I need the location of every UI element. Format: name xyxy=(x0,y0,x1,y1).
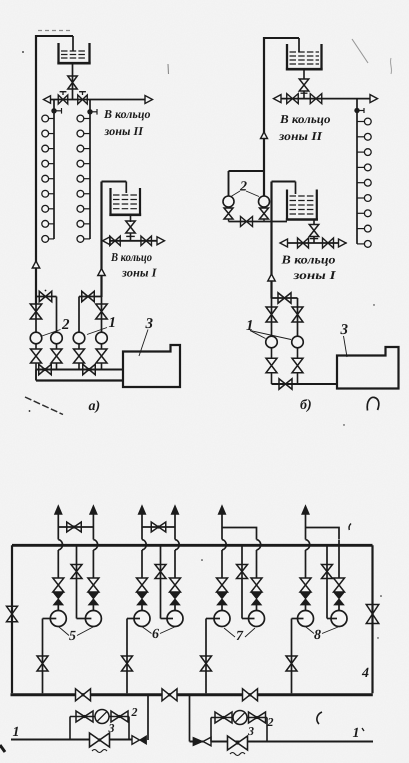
svg-text:3: 3 xyxy=(108,721,115,735)
svg-text:7: 7 xyxy=(236,629,244,644)
svg-text:2: 2 xyxy=(267,715,274,729)
svg-text:2: 2 xyxy=(239,180,247,195)
svg-text:В кольцо: В кольцо xyxy=(279,112,331,126)
svg-text:зоны II: зоны II xyxy=(103,124,144,138)
svg-text:2: 2 xyxy=(61,317,70,333)
svg-text:4: 4 xyxy=(361,666,369,681)
svg-text:б): б) xyxy=(300,398,312,413)
svg-text:зоны I: зоны I xyxy=(121,266,158,280)
svg-text:5: 5 xyxy=(69,629,76,644)
svg-text:1: 1 xyxy=(353,726,360,741)
svg-text:В кольцо: В кольцо xyxy=(103,107,150,121)
svg-text:8: 8 xyxy=(314,628,321,643)
svg-text:3: 3 xyxy=(247,724,254,738)
svg-text:6: 6 xyxy=(152,627,159,642)
svg-text:зоны II: зоны II xyxy=(278,129,324,143)
svg-text:3: 3 xyxy=(145,316,154,332)
svg-text:2: 2 xyxy=(131,705,138,719)
svg-text:3: 3 xyxy=(340,322,349,338)
svg-text:1: 1 xyxy=(13,725,20,740)
svg-text:1: 1 xyxy=(109,315,117,331)
svg-text:а): а) xyxy=(89,399,101,414)
svg-text:зоны I: зоны I xyxy=(292,268,337,282)
svg-text:В кольцо: В кольцо xyxy=(110,250,152,264)
svg-text:В кольцо: В кольцо xyxy=(280,253,335,267)
